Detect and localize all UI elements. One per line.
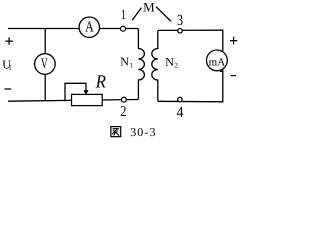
rheostat tap wire bbox=[65, 83, 86, 101]
terminal node 2 bbox=[122, 97, 127, 102]
svg-text:A: A bbox=[85, 20, 94, 36]
wire bottom rail bbox=[8, 100, 138, 102]
svg-text:30-3: 30-3 bbox=[130, 125, 156, 139]
leader line right of M bbox=[156, 7, 171, 22]
leader line left of M bbox=[132, 8, 141, 21]
wire top rail bbox=[8, 28, 138, 30]
terminal node 3 bbox=[178, 29, 182, 33]
rheostat arrow head bbox=[83, 90, 88, 94]
svg-text:N: N bbox=[120, 54, 129, 68]
label plus milliammeter bbox=[230, 37, 237, 45]
wire secondary top rail bbox=[158, 30, 223, 60]
svg-text:1: 1 bbox=[130, 61, 134, 69]
svg-text:V: V bbox=[41, 56, 48, 72]
wire secondary bottom rail bbox=[158, 60, 223, 102]
rheostat R body bbox=[72, 94, 103, 105]
inductor N1 primary winding bbox=[138, 29, 144, 100]
svg-text:2: 2 bbox=[120, 104, 126, 120]
label minus milliammeter bbox=[231, 75, 237, 77]
svg-text:1: 1 bbox=[121, 8, 126, 23]
caption hanzi tu glyph bbox=[111, 127, 121, 137]
voltmeter branch wire bbox=[44, 29, 46, 100]
svg-text:R: R bbox=[95, 73, 106, 93]
svg-text:M: M bbox=[143, 0, 155, 15]
ammeter A1 circle bbox=[79, 17, 99, 37]
svg-text:3: 3 bbox=[177, 12, 183, 29]
svg-text:N: N bbox=[165, 55, 174, 69]
label minus input bbox=[4, 88, 11, 90]
terminal node 1 bbox=[121, 26, 126, 31]
wire milliammeter jog bbox=[220, 70, 223, 72]
inductor N2 secondary winding bbox=[152, 30, 158, 101]
svg-text:1: 1 bbox=[8, 64, 12, 72]
label plus input bbox=[5, 37, 12, 44]
svg-text:mA: mA bbox=[209, 56, 226, 68]
terminal node 4 bbox=[178, 97, 182, 101]
svg-text:2: 2 bbox=[174, 61, 178, 69]
voltmeter V1 circle bbox=[35, 54, 56, 75]
svg-text:4: 4 bbox=[177, 104, 184, 121]
milliammeter mA circle bbox=[207, 50, 228, 71]
